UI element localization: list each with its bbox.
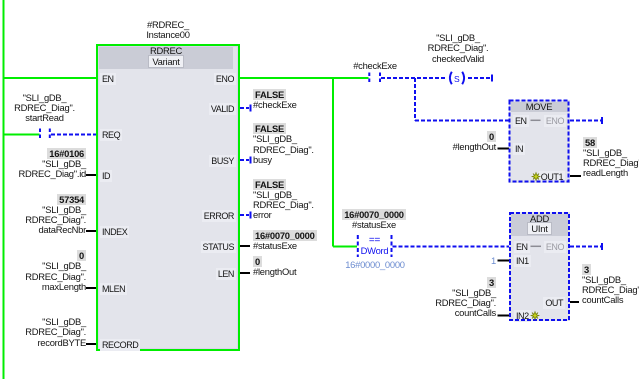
- block MOVE: [509, 100, 570, 183]
- wire green branch down to comparator: [332, 78, 334, 247]
- MOVE title: [511, 102, 568, 112]
- pin INDEX: [100, 227, 129, 237]
- pin RECORD: [100, 340, 140, 350]
- wire STATUS stub: [239, 245, 250, 247]
- RDREC title: [99, 46, 233, 56]
- ADD type UInt box: [511, 224, 568, 234]
- sparkle icon MOVE OUT1: [532, 173, 540, 181]
- operand maxLength at MLEN with monitor value 0: [25, 251, 86, 292]
- left power rail: [3, 0, 5, 379]
- operand #checkExe at VALID with monitor FALSE: [253, 90, 297, 111]
- contact startRead right bar: [49, 129, 51, 141]
- wire branch down to MOVE EN: [414, 78, 416, 121]
- wire ID stub: [86, 174, 97, 176]
- wire VALID stub: [240, 107, 249, 109]
- wire MOVE ENO out with end tick: [570, 120, 601, 122]
- pin MOVE ENO: [530, 116, 566, 126]
- pin STATUS: [186, 242, 236, 252]
- wire ADD ENO out with end tick: [570, 246, 601, 248]
- operand id at ID with monitor value 16#0106: [18, 149, 86, 180]
- MOVE EN-ENO gray link: [531, 119, 541, 121]
- pin EN: [100, 74, 116, 84]
- pin ENO: [186, 74, 236, 84]
- contact checkExe right bar: [379, 73, 381, 85]
- wire BUSY stub: [240, 159, 249, 161]
- wire INDEX stub: [86, 230, 97, 232]
- operand startRead at REQ: [0, 93, 89, 124]
- pin ADD ENO: [530, 242, 566, 252]
- pin ID: [100, 171, 112, 181]
- operand readLength at MOVE OUT1 with monitor 58: [583, 138, 639, 179]
- pin ADD IN1: [514, 256, 531, 266]
- block RDREC (instance #RDREC_Instance00): [96, 44, 240, 351]
- pin LEN: [186, 269, 236, 279]
- operand dataRecNbr at INDEX with monitor value 57354: [25, 195, 86, 236]
- pin MLEN: [100, 284, 127, 294]
- wire REQ green segment: [3, 134, 40, 136]
- pin ADD OUT: [528, 298, 565, 308]
- pin VALID: [186, 104, 236, 114]
- operand #statusExe at STATUS with monitor value: [253, 231, 317, 252]
- operand countCalls at ADD OUT with monitor 3: [582, 265, 639, 306]
- operand checkedValid at S coil: [413, 33, 503, 64]
- operand error at ERROR with monitor FALSE: [253, 180, 314, 221]
- contact startRead left bar: [39, 129, 41, 141]
- block ADD UInt: [509, 212, 570, 321]
- RDREC type Variant box: [99, 57, 233, 67]
- pin ADD EN: [514, 242, 530, 252]
- block MOVE dashed border: [510, 101, 569, 182]
- constant 1 at ADD IN1: [491, 256, 496, 266]
- operand #lengthOut at MOVE IN with monitor 0: [453, 132, 496, 153]
- wire LEN stub: [239, 272, 250, 274]
- comparator symbol ==: [350, 236, 399, 246]
- pin MOVE IN: [513, 144, 525, 154]
- contact checkExe left bar: [368, 73, 370, 85]
- comparator == left bar: [357, 235, 359, 257]
- block ADD dashed border: [510, 213, 569, 320]
- wire REQ blue dashed segment: [51, 134, 97, 136]
- pin BUSY: [186, 156, 236, 166]
- wire ADD IN1 stub: [498, 260, 511, 262]
- wire contact to coil dashed: [381, 77, 447, 79]
- coil S parentheses: [450, 72, 452, 84]
- operand countCalls at ADD IN2 with monitor 3: [435, 278, 496, 319]
- wire EN (green rung to RDREC EN): [3, 77, 97, 79]
- pin REQ: [100, 130, 122, 140]
- wire MLEN stub: [86, 287, 97, 289]
- label contact #checkExe: [330, 61, 420, 71]
- RDREC header: [99, 47, 233, 69]
- operand #statusExe at comparator with monitor value: [329, 210, 419, 231]
- wire ENO (green): [239, 77, 369, 79]
- pin ADD IN2: [514, 311, 531, 321]
- pin ERROR: [186, 211, 236, 221]
- comparator == right bar: [391, 235, 393, 257]
- label instance name #RDREC_Instance00: [118, 20, 218, 41]
- wire ADD IN2 stub: [498, 315, 511, 317]
- operand busy at BUSY with monitor FALSE: [253, 124, 314, 165]
- MOVE header: [511, 102, 568, 113]
- pin MOVE EN: [513, 116, 529, 126]
- wire ERROR stub: [240, 214, 249, 216]
- ADD header: [511, 214, 568, 236]
- operand recordBYTE at RECORD: [25, 317, 86, 348]
- comparator type DWord: [350, 246, 399, 256]
- ADD title: [511, 214, 568, 224]
- wire comparator to ADD EN dashed: [393, 246, 511, 248]
- ADD EN-ENO gray link: [531, 245, 542, 247]
- operand #lengthOut at LEN with monitor value 0: [253, 257, 296, 278]
- sparkle icon ADD IN2: [531, 312, 539, 320]
- comparator compare value 16#0000_0000: [330, 260, 420, 270]
- coil S letter: [454, 74, 459, 84]
- wire RECORD stub: [86, 343, 97, 345]
- wire MOVE OUT1 stub: [570, 175, 581, 177]
- pin MOVE OUT1: [528, 172, 565, 182]
- wire MOVE IN stub: [498, 148, 510, 150]
- wire ADD OUT stub: [570, 301, 579, 303]
- wire after coil dashed with end tick: [468, 77, 491, 79]
